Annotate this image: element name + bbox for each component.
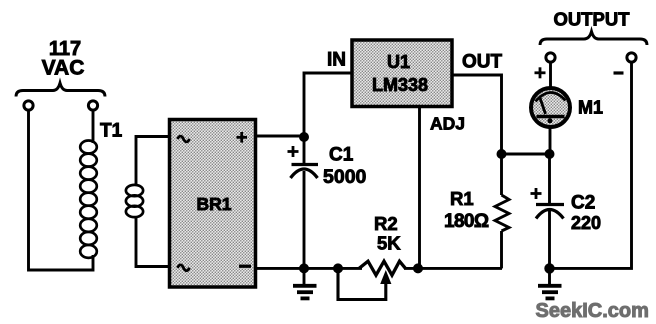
svg-text:C2: C2	[571, 193, 595, 214]
svg-text:BR1: BR1	[196, 194, 231, 214]
svg-text:5K: 5K	[377, 233, 401, 254]
svg-text:R2: R2	[374, 213, 398, 234]
svg-text:VAC: VAC	[42, 57, 85, 80]
svg-text:M1: M1	[578, 98, 603, 118]
svg-text:SeekIC.com: SeekIC.com	[536, 300, 649, 322]
svg-text:OUT: OUT	[462, 52, 503, 73]
svg-text:R1: R1	[450, 188, 474, 209]
svg-text:U1: U1	[387, 52, 410, 72]
svg-text:T1: T1	[100, 121, 123, 142]
svg-text:LM338: LM338	[372, 75, 428, 95]
svg-text:ADJ: ADJ	[430, 114, 465, 134]
svg-text:180Ω: 180Ω	[444, 211, 489, 232]
svg-text:IN: IN	[327, 50, 346, 71]
svg-text:5000: 5000	[323, 166, 367, 188]
svg-text:OUTPUT: OUTPUT	[553, 8, 630, 29]
svg-text:220: 220	[571, 213, 601, 233]
svg-text:C1: C1	[329, 144, 354, 165]
